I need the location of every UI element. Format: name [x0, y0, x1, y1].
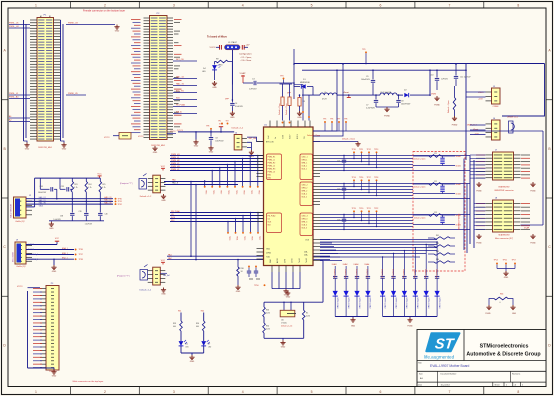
- svg-text:R30: R30: [241, 268, 244, 270]
- svg-text:GHB_2: GHB_2: [302, 188, 308, 190]
- wire long bus y=131 to right edge: [313, 130, 543, 132]
- svg-text:Default = Open: Default = Open: [447, 100, 450, 113]
- net labels right of J7: [521, 155, 530, 179]
- connector J3 (4-pin, default 1-2): [140, 166, 166, 198]
- diode D2: [404, 90, 409, 98]
- svg-text:PA0_S: PA0_S: [172, 182, 179, 185]
- test points TP1 TP2 near J4: [218, 121, 229, 125]
- svg-text:EN1: EN1: [268, 175, 272, 177]
- inductor L1: [320, 92, 337, 101]
- resistor R9 680: [216, 59, 228, 67]
- capacitor C23 on CMD_3: [337, 214, 346, 230]
- svg-text:TP36: TP36: [79, 249, 83, 251]
- svg-text:SnsB2: SnsB2: [456, 194, 461, 196]
- connector P2 (2x44 header): [144, 13, 174, 147]
- power ground PGND below R11: [452, 116, 458, 127]
- svg-text:SDI: SDI: [268, 225, 271, 227]
- svg-text:TP18: TP18: [374, 177, 378, 179]
- svg-text:TP20: TP20: [242, 190, 244, 194]
- wire J4 SET_SW to U1: [247, 137, 264, 141]
- svg-text:CMD_3: CMD_3: [302, 216, 308, 218]
- svg-text:GND: GND: [194, 146, 199, 148]
- net label PW0K_U5: [66, 93, 86, 95]
- svg-text:TP9: TP9: [362, 49, 365, 51]
- ground below P3: [51, 370, 56, 378]
- svg-text:C22: C22: [434, 181, 437, 183]
- capacitor C7 2.2uF/50V: [366, 95, 378, 110]
- svg-text:TchB1: TchB1: [299, 258, 301, 263]
- svg-text:TP11: TP11: [359, 149, 363, 151]
- wire segment y=84 for pulls: [280, 83, 293, 85]
- svg-text:TP14: TP14: [352, 177, 356, 179]
- svg-text:HALL_U1: HALL_U1: [176, 76, 184, 79]
- svg-text:Default = 1-2: Default = 1-2: [140, 195, 152, 198]
- connector J2 HALL SENSOR: [10, 195, 33, 223]
- power ground PGND right of J8: [530, 234, 536, 245]
- svg-text:HALL (1): HALL (1): [104, 196, 112, 199]
- capacitor C3 1uF/16V (series): [243, 79, 294, 91]
- svg-text:STTH112A0: STTH112A0: [427, 298, 430, 310]
- svg-text:PGND: PGND: [384, 116, 390, 118]
- svg-text:PE_PCAN: PE_PCAN: [176, 104, 185, 107]
- svg-text:R62: R62: [201, 311, 204, 313]
- wire YB to top rail: [313, 69, 338, 131]
- net label PW0K_U3 / wire to ground: [66, 23, 115, 25]
- wire PA0_S: [164, 182, 238, 185]
- wire BHND to ground: [313, 141, 358, 143]
- svg-text:VCC3: VCC3: [170, 131, 176, 133]
- svg-text:2: 2: [104, 390, 106, 394]
- svg-text:TP22: TP22: [374, 208, 378, 210]
- svg-text:PGND: PGND: [476, 191, 482, 193]
- capacitor C34 100nF/16V: [38, 178, 57, 199]
- svg-text:LED: LED: [202, 71, 206, 73]
- svg-text:STTH112A0: STTH112A0: [405, 298, 408, 310]
- svg-text:Va: Va: [275, 137, 277, 139]
- ground comb left: [350, 317, 355, 328]
- U1 bottom pin stubs: [272, 266, 300, 273]
- U1 port group box PWM inputs: [267, 154, 282, 180]
- title block size/document row: [419, 373, 520, 381]
- svg-text:VCC3: VCC3: [17, 286, 23, 288]
- svg-text:R34: R34: [196, 323, 199, 325]
- net label P00L_U1 / wire: [9, 23, 30, 25]
- svg-text:STTH112A0: STTH112A0: [394, 298, 397, 310]
- wire bus PWM_H1..PWM_L3: [170, 156, 264, 171]
- svg-text:PB_PLA0: PB_PLA0: [268, 215, 276, 218]
- wire joining caps to PGND: [376, 106, 399, 108]
- connector P3 male (top layer): [40, 283, 59, 373]
- capacitor C42: [254, 266, 260, 280]
- svg-text:C8: C8: [401, 101, 403, 103]
- power ground PGND left of J8: [476, 234, 482, 245]
- svg-text:AVDD: AVDD: [276, 257, 279, 263]
- svg-text:GND: GND: [297, 117, 302, 119]
- svg-text:8: 8: [517, 390, 519, 394]
- svg-text:L3 JTAG?: L3 JTAG?: [228, 41, 238, 44]
- svg-text:640: 640: [173, 326, 176, 328]
- wire PA0: [164, 179, 264, 182]
- svg-text:R23: R23: [74, 184, 77, 186]
- svg-text:GND: GND: [49, 228, 54, 230]
- svg-text:TP38: TP38: [79, 259, 83, 261]
- svg-text:VS/M: VS/M: [431, 94, 436, 96]
- svg-text:3: 3: [173, 3, 175, 7]
- svg-text:OchB: OchB: [292, 258, 294, 263]
- comb right columns from bundle: [382, 241, 438, 275]
- ground right of R66: [510, 305, 516, 315]
- svg-text:C23: C23: [434, 212, 437, 214]
- net label stubs left of P2: [131, 19, 141, 133]
- svg-text:GND: GND: [504, 277, 509, 279]
- svg-text:TP19: TP19: [235, 190, 237, 194]
- svg-text:TP21: TP21: [367, 208, 371, 210]
- wire VPP vertical from JTAG down: [231, 50, 233, 85]
- svg-text:ENCODER: ENCODER: [13, 251, 15, 262]
- net label VCC3: [210, 47, 220, 49]
- wire bundle from U1 lower-right to comb: [320, 240, 437, 261]
- svg-text:TP37: TP37: [79, 254, 83, 256]
- ground below trimmer: [280, 340, 285, 348]
- svg-text:- 2.1: Open;: - 2.1: Open;: [240, 57, 252, 59]
- power ground PGND left of R66: [485, 305, 491, 315]
- ground below C8: [208, 146, 213, 154]
- svg-text:C?D(3): C?D(3): [281, 322, 287, 324]
- svg-text:PWM_L3: PWM_L3: [171, 169, 180, 171]
- svg-text:Vdd: Vdd: [268, 136, 270, 139]
- power flag VCC hall: [97, 174, 102, 178]
- svg-text:PWM_L2: PWM_L2: [268, 166, 275, 168]
- svg-text:DHA1: DHA1: [332, 263, 337, 266]
- net label P00L_U4 / wire: [9, 26, 30, 28]
- svg-text:PW0L_A4: PW0L_A4: [9, 96, 19, 99]
- svg-text:GND: GND: [153, 152, 158, 154]
- svg-text:TP13: TP13: [374, 149, 378, 151]
- wire: P1 left vertical bus: [24, 20, 27, 141]
- wire right edge drop to CN2: [502, 64, 545, 117]
- svg-text:R33: R33: [266, 310, 269, 312]
- svg-text:5: 5: [311, 3, 313, 7]
- svg-text:PWM_L1: PWM_L1: [171, 157, 180, 159]
- svg-text:TP16: TP16: [359, 177, 363, 179]
- svg-text:J10: J10: [281, 319, 284, 321]
- svg-text:STTH112A0: STTH112A0: [416, 298, 419, 310]
- note (footprint *T*) upper: [120, 182, 133, 185]
- power ground PGND right of J7: [530, 182, 536, 193]
- svg-text:TP57: TP57: [512, 260, 516, 262]
- svg-text:HALL (2): HALL (2): [104, 199, 112, 202]
- capacitor C9 100nF/50V: [361, 69, 375, 95]
- ground on BHND: [355, 142, 360, 147]
- wire bundle CMD_2 phase: [320, 184, 470, 199]
- svg-text:GND: GND: [190, 361, 195, 363]
- resistor R5 (european symbol): [298, 94, 305, 111]
- svg-text:D6: D6: [186, 344, 188, 346]
- svg-text:VCC3: VCC3: [104, 137, 110, 139]
- svg-text:Default = Open: Default = Open: [414, 217, 425, 220]
- svg-text:7: 7: [448, 3, 450, 7]
- ground GND below P1 right: [61, 141, 67, 151]
- svg-text:ENA_1: ENA_1: [62, 247, 68, 250]
- svg-text:PWM_L1: PWM_L1: [268, 160, 275, 162]
- wires U1 top to rails: [294, 85, 310, 121]
- svg-text:C21: C21: [337, 161, 340, 163]
- svg-text:Main connector (X7): Main connector (X7): [495, 237, 513, 240]
- power flag VCC mid: [219, 123, 224, 131]
- wire vertical risers x=191,196: [190, 181, 197, 261]
- capacitor C4 3.3uF/16V: [225, 99, 244, 111]
- wire Vdd rail y=131.9: [178, 131, 234, 133]
- svg-text:BOLS: BOLS: [297, 133, 299, 139]
- svg-text:STMicroelectronics: STMicroelectronics: [480, 343, 529, 349]
- svg-text:C7: C7: [366, 105, 368, 107]
- svg-text:TP17: TP17: [367, 177, 371, 179]
- svg-text:4: 4: [242, 390, 244, 394]
- test point comb TP23-TP27 on SPI bus: [227, 212, 260, 241]
- wire bundle CMD_1 phase: [320, 156, 470, 171]
- wire: rail turns at x=430: [429, 69, 431, 96]
- svg-text:R34: R34: [266, 326, 269, 328]
- wire comb bottom bus left + ground: [335, 316, 368, 318]
- svg-text:1uF/16V: 1uF/16V: [249, 89, 257, 91]
- svg-text:Default = 1-2: Default = 1-2: [140, 289, 152, 292]
- connector J7 INVERTER: [486, 150, 521, 193]
- svg-text:SET_SW: SET_SW: [249, 138, 257, 140]
- svg-text:Default = Close: Default = Close: [278, 103, 281, 115]
- svg-text:4.7k: 4.7k: [102, 187, 105, 189]
- encoder pin net names: [28, 244, 39, 261]
- test points TP10-TP13 on CMD_1: [352, 149, 379, 168]
- svg-text:PB_PLA0: PB_PLA0: [171, 210, 181, 213]
- svg-text:0: 0: [500, 302, 501, 304]
- svg-text:To board of Micro: To board of Micro: [207, 35, 228, 38]
- wire VPP node vertical x=294: [287, 82, 295, 99]
- svg-text:STTH112A0: STTH112A0: [336, 298, 339, 310]
- net label PW0L_L1: [9, 93, 30, 95]
- svg-text:+5V: +5V: [246, 45, 250, 47]
- wires encoder signals: [26, 245, 74, 266]
- svg-text:100nF/50V: 100nF/50V: [361, 79, 371, 81]
- ground hall: [49, 221, 54, 230]
- power ground PGND left of J7: [476, 182, 482, 193]
- svg-text:R25: R25: [102, 184, 105, 186]
- title block company text: [466, 343, 541, 357]
- svg-text:ENB_1: ENB_1: [62, 253, 68, 255]
- connector J12 VCC3: [104, 133, 131, 140]
- net label stubs right of P2: [174, 19, 182, 127]
- svg-text:0L1%: 0L1%: [266, 329, 271, 331]
- test point TP8: [206, 126, 212, 137]
- ground below J10: [161, 288, 166, 296]
- svg-text:SET_OB: SET_OB: [176, 59, 184, 61]
- capacitor C8 100nF/16V: [209, 138, 225, 146]
- wire right-edge vertical x=543: [542, 131, 544, 225]
- LED branch D6: [173, 311, 189, 354]
- svg-text:INVERTER connector: INVERTER connector: [494, 189, 514, 192]
- svg-text:TP18: TP18: [227, 190, 229, 194]
- net label (VCC3: [177, 130, 184, 132]
- net labels left of J8: [476, 203, 485, 230]
- svg-text:PGND: PGND: [485, 313, 491, 315]
- svg-text:GLB_3: GLB_3: [302, 225, 308, 227]
- svg-text:40x60x (C)2: 40x60x (C)2: [16, 266, 25, 268]
- svg-text:4.7k: 4.7k: [74, 187, 77, 189]
- svg-text:TP8: TP8: [206, 126, 209, 128]
- svg-text:SDI: SDI: [171, 220, 175, 222]
- wires right of P2 with net labels: [173, 59, 197, 113]
- svg-text:PGND: PGND: [407, 326, 413, 328]
- svg-text:Document Number: Document Number: [441, 373, 457, 376]
- svg-text:DIA-: DIA-: [304, 250, 308, 253]
- svg-text:Vboot: Vboot: [473, 128, 479, 131]
- svg-text:SHB_1: SHB_1: [302, 163, 308, 165]
- capacitor C21 on CMD_1: [337, 155, 346, 171]
- svg-text:6: 6: [380, 3, 382, 7]
- svg-text:Sheet: Sheet: [495, 384, 500, 387]
- svg-text:R61: R61: [178, 311, 181, 313]
- svg-text:1.0uF/16V: 1.0uF/16V: [53, 219, 61, 221]
- net label +5V: [244, 45, 250, 48]
- resistor R12 Default=Open: [447, 86, 456, 116]
- svg-text:EVAL-L9907 Mother Board: EVAL-L9907 Mother Board: [430, 364, 470, 368]
- wire: P1 right vertical bus: [61, 20, 64, 141]
- svg-text:PW0L_U1: PW0L_U1: [9, 23, 19, 25]
- svg-text:life.augmented: life.augmented: [424, 354, 455, 359]
- svg-text:Default = Close: Default = Close: [307, 134, 320, 137]
- svg-text:GND1: GND1: [249, 156, 255, 158]
- svg-text:TP31: TP31: [118, 201, 122, 203]
- svg-text:TP32: TP32: [118, 204, 122, 206]
- svg-text:0L1%: 0L1%: [306, 316, 311, 318]
- test points TP54 TP56 TP57: [494, 260, 516, 272]
- svg-text:STTH112A0: STTH112A0: [358, 298, 361, 310]
- power flag VCAP right of J8: [524, 227, 530, 230]
- svg-text:SnsB1: SnsB1: [456, 166, 461, 168]
- svg-text:+15V: +15V: [478, 99, 483, 101]
- wires from U1 bottom to ground bus: [272, 272, 300, 289]
- svg-text:1: 1: [35, 3, 37, 7]
- wires hall signals: [26, 198, 113, 207]
- U1 left pin stubs: [257, 142, 264, 260]
- RC filter group SnsA1: [413, 153, 461, 167]
- svg-text:TP10: TP10: [352, 149, 356, 151]
- svg-text:R66: R66: [500, 294, 503, 296]
- jumper SJ1 upper: [139, 174, 147, 190]
- svg-text:Male connector on the top laye: Male connector on the top layer: [73, 380, 104, 383]
- svg-text:Date: Date: [418, 384, 422, 387]
- net labels DHA1-DHA4: [332, 263, 369, 276]
- capacitor C40: [98, 204, 108, 221]
- ground below P2: [152, 146, 157, 154]
- svg-text:GND: GND: [266, 248, 271, 250]
- svg-text:DHA2: DHA2: [343, 263, 348, 266]
- U1 right pin stubs: [313, 131, 320, 261]
- test point TP3: [280, 76, 284, 84]
- svg-text:4.7k: 4.7k: [88, 187, 91, 189]
- net labels on P3 pins: [33, 288, 42, 368]
- power ground PGND below L2 caps: [384, 107, 390, 118]
- svg-text:GLB_2: GLB_2: [302, 194, 308, 196]
- svg-text:TP50: TP50: [254, 285, 259, 287]
- ground GND below P1 left: [24, 141, 30, 151]
- wires J4 pins to ground: [247, 142, 251, 150]
- svg-text:CMD_1: CMD_1: [302, 157, 308, 159]
- title block: [417, 330, 546, 387]
- ground above trimmer: [286, 291, 291, 298]
- svg-text:BSC_W1: BSC_W1: [176, 91, 184, 93]
- net labels PWM_H1..PWM_L3: [171, 154, 180, 171]
- svg-text:DVM: DVM: [284, 259, 286, 263]
- svg-text:PGND: PGND: [530, 191, 536, 193]
- power flag VCC3 at P3: [17, 286, 40, 288]
- svg-text:HALL SENSOR: HALL SENSOR: [10, 204, 13, 218]
- svg-text:TP30: TP30: [118, 198, 122, 200]
- svg-text:VCAP: VCAP: [524, 227, 530, 230]
- svg-text:47uH: 47uH: [322, 99, 327, 101]
- svg-text:R1: R1: [306, 313, 308, 315]
- wire bus PB_PLA0/CD/SCK/SDI: [170, 213, 264, 222]
- svg-text:PWM_H2: PWM_H2: [171, 160, 180, 162]
- svg-text:PGND: PGND: [530, 243, 536, 245]
- test points TP19-TP22 on CMD_3: [352, 208, 379, 227]
- svg-text:PWM_H1: PWM_H1: [171, 154, 180, 156]
- svg-text:SLB_3: SLB_3: [302, 228, 307, 230]
- svg-text:GND: GND: [25, 149, 30, 151]
- svg-text:TP56: TP56: [503, 260, 507, 262]
- svg-text:Vboot: Vboot: [343, 91, 349, 94]
- svg-text:TP15: TP15: [205, 190, 207, 194]
- wire right vertical bus x=470/474: [464, 156, 474, 254]
- svg-text:PA1_A4: PA1_A4: [163, 274, 169, 277]
- svg-text:TP16: TP16: [212, 190, 214, 194]
- svg-text:VCC: VCC: [97, 174, 102, 176]
- wire bundle CMD_3 phase: [320, 215, 470, 230]
- svg-text:SnsA1: SnsA1: [456, 155, 461, 158]
- jumper SJ2 + footprint note (lower): [117, 265, 148, 281]
- LED branch D7: [196, 311, 212, 354]
- diode row D10-D19 STTH112A: [333, 291, 441, 317]
- svg-text:0L1%: 0L1%: [266, 313, 271, 315]
- test point comb TP15-TP22 on PWM bus: [204, 155, 260, 195]
- wire: vertical feed x=466: [465, 64, 467, 160]
- ST logo: [424, 333, 460, 359]
- svg-text:VCC3: VCC3: [210, 47, 217, 49]
- svg-text:TP25: TP25: [243, 236, 245, 240]
- net labels right of J8: [521, 203, 530, 230]
- svg-text:C22: C22: [337, 189, 340, 191]
- ground below LEDs: [189, 355, 194, 363]
- connector J4 SET_SW: [234, 133, 256, 150]
- svg-text:PGND: PGND: [452, 125, 458, 127]
- wires J10 to risers: [160, 273, 169, 277]
- svg-text:100nF/50V: 100nF/50V: [401, 104, 411, 106]
- svg-text:TP22: TP22: [258, 190, 260, 194]
- note Default = 1-2: [232, 127, 244, 130]
- svg-text:C11 1uF/50V: C11 1uF/50V: [460, 77, 471, 79]
- note: Configuration jumper options: [239, 52, 252, 62]
- capacitor C8 100nF/50V: [396, 95, 411, 107]
- svg-text:PWM_L2: PWM_L2: [171, 163, 180, 165]
- svg-text:C9: C9: [366, 76, 368, 78]
- svg-text:C23: C23: [337, 220, 340, 222]
- svg-text:SD0: SD0: [176, 98, 180, 100]
- connector J8 MAIN: [486, 198, 521, 241]
- ground right of J4: [249, 150, 255, 158]
- svg-text:HALL (3): HALL (3): [104, 201, 112, 204]
- connector P1 (female 2x44 header): [30, 15, 61, 149]
- svg-text:GND: GND: [236, 291, 241, 293]
- wire riser into trimmer: [322, 261, 324, 303]
